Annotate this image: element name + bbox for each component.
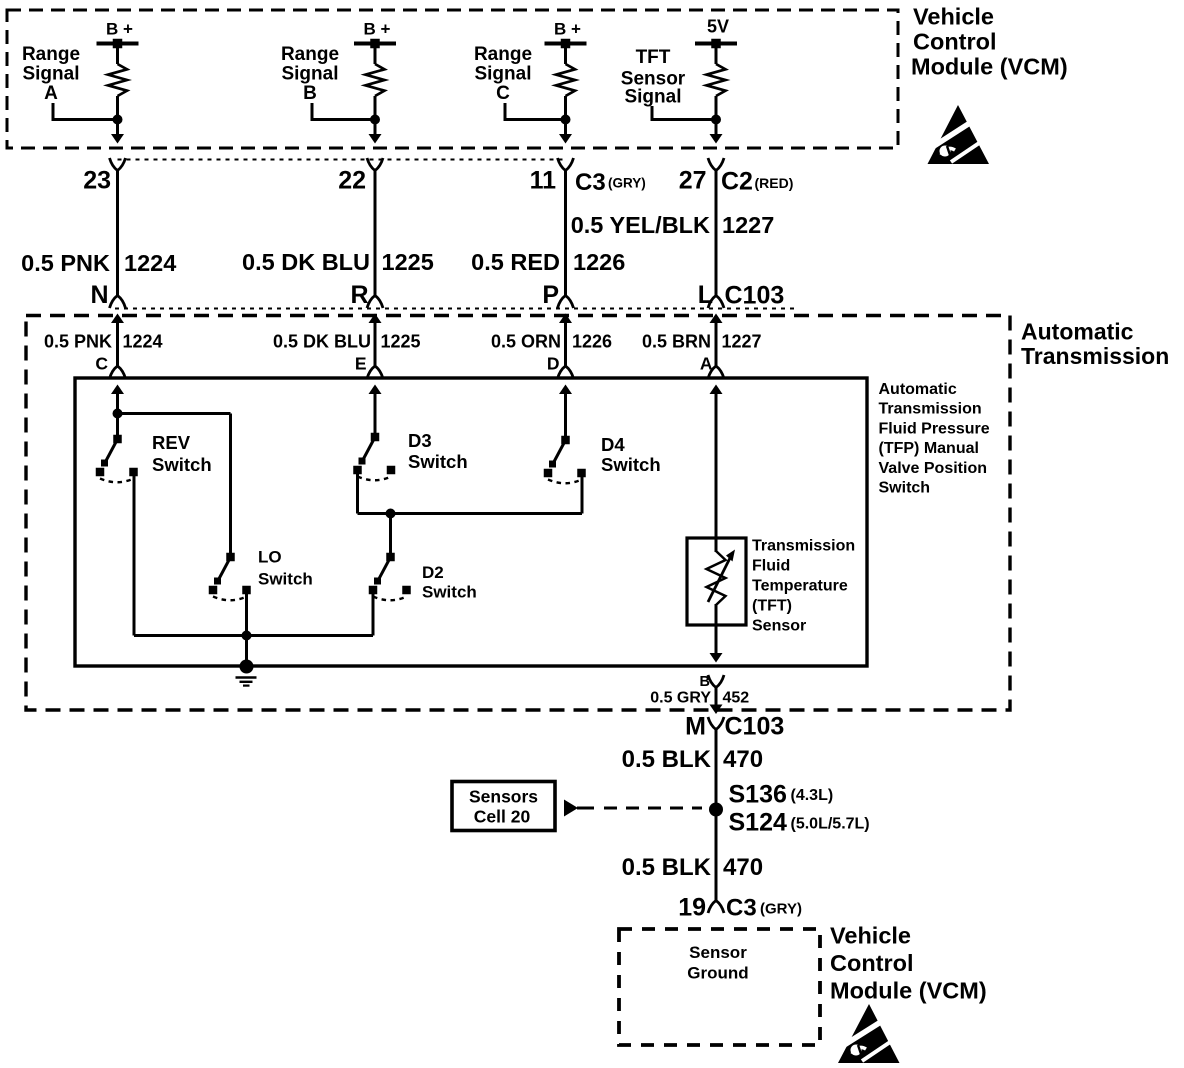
connector C103 pin N letter <box>90 281 108 309</box>
svg-text:Signal: Signal <box>624 87 681 108</box>
svg-text:Module (VCM): Module (VCM) <box>830 978 987 1004</box>
connector C103 boundary line (dotted) <box>115 308 795 310</box>
svg-text:(4.3L): (4.3L) <box>791 787 834 804</box>
svg-text:N: N <box>90 281 108 309</box>
wire to ground <box>245 636 248 662</box>
svg-text:Range: Range <box>281 44 339 65</box>
svg-text:Valve Position: Valve Position <box>879 460 987 477</box>
label TFT Sensor Signal <box>621 47 686 108</box>
ground symbol <box>236 678 257 686</box>
wire junction to LO feed <box>118 414 231 555</box>
label D2 Switch <box>422 563 477 602</box>
power supply B+ (column 2) <box>354 20 396 49</box>
svg-text:TFT: TFT <box>636 47 671 68</box>
wire junction to D2 pivot <box>389 514 392 554</box>
svg-text:L: L <box>698 281 713 309</box>
node junction (column 3) <box>561 115 571 125</box>
wire (column 1 in VCM) <box>116 96 119 135</box>
connector C103 male pin arrow (P) <box>559 314 572 367</box>
svg-text:0.5 PNK: 0.5 PNK <box>44 332 112 352</box>
label REV Switch <box>152 432 212 475</box>
connector C103 pin P letter <box>542 281 559 309</box>
node junction common/ground <box>242 631 252 641</box>
Sensor Ground box (VCM bottom) <box>619 929 820 1045</box>
wire label 0.5 DK BLU 1225 <box>242 249 434 275</box>
svg-text:Switch: Switch <box>879 480 931 497</box>
svg-text:A: A <box>44 83 58 104</box>
svg-text:1225: 1225 <box>381 332 421 352</box>
svg-text:Sensors: Sensors <box>469 787 538 807</box>
svg-text:(TFP) Manual: (TFP) Manual <box>879 440 979 457</box>
TFT sensor box <box>687 538 746 625</box>
connector fork pin 23 (female) <box>110 158 126 171</box>
svg-text:S136: S136 <box>729 781 787 809</box>
pin A entry arrow <box>710 385 723 541</box>
svg-text:0.5 YEL/BLK: 0.5 YEL/BLK <box>571 212 710 238</box>
TFP Manual Valve Position Switch box <box>75 378 867 666</box>
wire elbow from A label <box>53 103 118 120</box>
wire label 0.5 RED 1226 <box>471 249 625 275</box>
wire label 0.5 PNK 1224 (transmission) <box>44 332 163 352</box>
label Transmission Fluid Temperature (TFT) Sensor <box>752 538 855 635</box>
resistor R4 pull-up <box>707 46 726 96</box>
svg-text:C: C <box>95 354 108 374</box>
svg-text:1225: 1225 <box>382 249 434 275</box>
svg-text:Sensor: Sensor <box>752 618 806 635</box>
svg-text:Switch: Switch <box>152 454 212 475</box>
label D4 Switch <box>601 434 661 475</box>
wire dashed to splice <box>604 807 702 810</box>
pin number 11 <box>530 167 557 195</box>
wire D4 NC contact down <box>581 477 584 514</box>
svg-text:C103: C103 <box>725 713 785 741</box>
connector fork pin 27 (female) <box>708 158 724 171</box>
wire label 0.5 ORN 1226 (transmission) <box>491 332 612 352</box>
ESD sensitivity symbol (bottom) <box>838 1004 905 1063</box>
connector C103 fork pin R <box>367 296 383 309</box>
svg-text:C3: C3 <box>575 169 606 196</box>
connector C3/C2 boundary line (dotted) <box>118 159 566 161</box>
pin C entry arrow <box>111 385 124 414</box>
switch D2 <box>369 553 411 601</box>
svg-text:D2: D2 <box>422 563 444 582</box>
svg-text:(GRY): (GRY) <box>760 901 802 918</box>
wire label 0.5 BLK 470 (lower) <box>622 854 763 881</box>
svg-text:Ground: Ground <box>687 964 748 983</box>
svg-text:23: 23 <box>83 167 111 195</box>
TFP switch connector fork pin D <box>558 366 574 379</box>
wire label 0.5 BLK 470 (upper) <box>622 746 763 773</box>
svg-text:B: B <box>303 83 317 104</box>
svg-text:(GRY): (GRY) <box>608 176 646 191</box>
wire elbow from C label <box>505 103 566 120</box>
pin number 22 <box>338 167 366 195</box>
connector label C103 <box>725 282 785 310</box>
connector label C3 (GRY) <box>575 169 646 196</box>
Vehicle Control Module (VCM) box (top) <box>7 10 898 148</box>
wire label 0.5 BRN 1227 (transmission) <box>642 332 762 352</box>
svg-text:0.5 GRY: 0.5 GRY <box>650 690 711 707</box>
svg-text:22: 22 <box>338 167 366 195</box>
connector fork pin 11 (female) <box>558 158 574 171</box>
connector C103 fork pin L <box>708 296 724 309</box>
wire D2 NO contact down <box>372 594 375 636</box>
pin E entry arrow <box>369 385 382 435</box>
svg-text:C3: C3 <box>726 895 757 922</box>
wire REV NC contact down <box>133 476 136 636</box>
connector C103 male pin arrow (N) <box>111 314 124 367</box>
connector C103 fork pin N <box>110 296 126 309</box>
wire circuit 1225 (VCM to C103) <box>374 171 377 296</box>
node junction REV/LO feed <box>113 409 123 419</box>
svg-text:1224: 1224 <box>124 250 176 276</box>
svg-text:27: 27 <box>679 167 707 195</box>
label Automatic Transmission <box>1021 319 1169 370</box>
wire circuit 470 upper <box>715 730 718 901</box>
wire LO NC contact down <box>245 594 248 636</box>
resistor R1 pull-up <box>108 46 127 96</box>
svg-text:452: 452 <box>723 690 750 707</box>
svg-text:D4: D4 <box>601 434 625 455</box>
wire (column 2 in VCM) <box>374 96 377 135</box>
wire pin B to C103 <box>715 688 718 707</box>
label Vehicle Control Module (VCM) top <box>911 4 1068 80</box>
svg-text:Switch: Switch <box>601 454 661 475</box>
svg-text:470: 470 <box>723 746 763 773</box>
svg-text:Cell 20: Cell 20 <box>474 807 531 827</box>
svg-text:B +: B + <box>554 20 581 39</box>
svg-text:Control: Control <box>913 29 997 55</box>
svg-text:Fluid Pressure: Fluid Pressure <box>879 420 990 437</box>
svg-text:1227: 1227 <box>722 212 774 238</box>
connector fork pin 22 (female) <box>367 158 383 171</box>
pin arrow out of VCM (column 1) <box>111 134 124 144</box>
svg-text:1224: 1224 <box>123 332 163 352</box>
connector C103 male pin arrow (R) <box>369 314 382 367</box>
svg-text:Vehicle: Vehicle <box>913 4 994 30</box>
svg-text:Temperature: Temperature <box>752 578 848 595</box>
Automatic Transmission box (dashed) <box>26 316 1010 711</box>
svg-text:Fluid: Fluid <box>752 558 790 575</box>
svg-text:Transmission: Transmission <box>752 538 855 555</box>
svg-text:5V: 5V <box>707 17 729 37</box>
svg-text:0.5 DK BLU: 0.5 DK BLU <box>273 332 371 352</box>
switch D3 <box>353 433 395 481</box>
Sensors Cell 20 box <box>452 782 555 831</box>
node junction (column 4) <box>711 115 721 125</box>
label Range Signal B <box>281 44 339 104</box>
svg-text:Signal: Signal <box>281 64 338 85</box>
svg-text:19: 19 <box>678 894 706 922</box>
svg-text:0.5 RED: 0.5 RED <box>471 249 560 275</box>
node junction (column 1) <box>113 115 123 125</box>
splice node S136/S124 <box>709 803 723 817</box>
svg-text:Signal: Signal <box>474 64 531 85</box>
svg-text:M: M <box>685 713 706 741</box>
label Vehicle Control Module (VCM) bottom <box>830 923 987 1004</box>
label S124 (5.0L/5.7L) <box>729 809 870 837</box>
svg-text:Vehicle: Vehicle <box>830 923 911 949</box>
svg-text:Switch: Switch <box>422 583 477 602</box>
svg-text:470: 470 <box>723 854 763 881</box>
label Range Signal C <box>474 44 532 104</box>
pin B exit arrow <box>710 653 723 663</box>
svg-text:Sensor: Sensor <box>689 943 747 962</box>
power supply 5V (column 4) <box>695 17 737 49</box>
wire label 0.5 DK BLU 1225 (transmission) <box>273 332 421 352</box>
svg-text:B +: B + <box>106 20 133 39</box>
wire (column 3 in VCM) <box>564 96 567 135</box>
svg-text:Automatic: Automatic <box>1021 319 1134 345</box>
wire label 0.5 PNK 1224 <box>21 250 176 276</box>
resistor R3 pull-up <box>556 46 575 96</box>
pin number 23 <box>83 167 111 195</box>
wire common bus <box>134 634 373 637</box>
arrow out of transmission <box>710 705 723 715</box>
connector C103 male pin arrow (L) <box>710 314 723 367</box>
label LO Switch <box>258 548 313 589</box>
power supply B+ (column 1) <box>97 20 139 49</box>
svg-text:E: E <box>355 354 367 374</box>
connector C103 fork pin P <box>558 296 574 309</box>
svg-text:P: P <box>542 281 559 309</box>
connector label C3 (GRY) bottom <box>726 895 802 922</box>
pin number 19 <box>678 894 706 922</box>
TFP switch pin E letter <box>355 354 367 374</box>
svg-text:Signal: Signal <box>22 64 79 85</box>
ground node <box>240 660 254 674</box>
switch D4 <box>544 436 586 484</box>
connector C103 pin R letter <box>350 281 368 309</box>
pin number 27 <box>679 167 707 195</box>
svg-text:S124: S124 <box>729 809 787 837</box>
svg-text:1226: 1226 <box>572 332 612 352</box>
svg-text:Switch: Switch <box>408 451 468 472</box>
svg-text:Range: Range <box>22 44 80 65</box>
svg-text:1227: 1227 <box>722 332 762 352</box>
svg-text:Module (VCM): Module (VCM) <box>911 54 1068 80</box>
connector C103 fork pin M <box>708 717 724 730</box>
svg-text:0.5 PNK: 0.5 PNK <box>21 250 110 276</box>
label M C103 <box>685 713 784 741</box>
svg-text:(TFT): (TFT) <box>752 598 792 615</box>
svg-text:C103: C103 <box>725 282 785 310</box>
wire label 0.5 GRY 452 <box>650 690 749 707</box>
wire circuit 1224 (VCM to C103) <box>116 171 119 296</box>
svg-text:(5.0L/5.7L): (5.0L/5.7L) <box>791 816 870 833</box>
TFP switch pin C letter <box>95 354 108 374</box>
svg-text:Switch: Switch <box>258 570 313 589</box>
thermistor TFT sensor <box>707 538 736 640</box>
wire TFT sensor to pin B <box>715 625 718 654</box>
wire elbow from Signal label <box>652 106 716 120</box>
svg-text:Transmission: Transmission <box>879 401 982 418</box>
TFP switch connector fork pin A <box>708 366 724 379</box>
svg-text:D: D <box>547 354 560 374</box>
wire circuit 1227 (VCM to C103) <box>715 171 718 296</box>
arrow from Sensors Cell 20 <box>564 800 594 817</box>
connector C3 fork pin 19 <box>708 901 724 914</box>
svg-text:R: R <box>350 281 368 309</box>
switch LO <box>209 553 251 601</box>
pin arrow out of VCM (column 4) <box>710 134 723 144</box>
pin D entry arrow <box>559 385 572 438</box>
svg-text:(RED): (RED) <box>755 175 794 191</box>
pin arrow out of VCM (column 2) <box>369 134 382 144</box>
ESD sensitivity symbol (top) <box>928 105 995 164</box>
resistor R2 pull-up <box>366 46 385 96</box>
svg-text:Range: Range <box>474 44 532 65</box>
node junction D3/D4/D2 <box>386 509 396 519</box>
label Range Signal A <box>22 44 80 104</box>
svg-text:0.5 BRN: 0.5 BRN <box>642 332 711 352</box>
wire circuit 1226 (VCM to C103) <box>564 171 567 296</box>
wire junction to REV pivot <box>116 414 119 437</box>
svg-text:0.5 DK BLU: 0.5 DK BLU <box>242 249 370 275</box>
svg-text:B +: B + <box>364 20 391 39</box>
svg-text:C: C <box>496 83 510 104</box>
wire (column 4 in VCM) <box>715 96 718 135</box>
svg-text:0.5 ORN: 0.5 ORN <box>491 332 561 352</box>
label S136 (4.3L) <box>729 781 834 809</box>
connector C103 pin L letter <box>698 281 713 309</box>
TFP switch connector fork pin C <box>110 366 126 379</box>
svg-text:11: 11 <box>530 167 557 195</box>
svg-text:1226: 1226 <box>573 249 625 275</box>
label Automatic Transmission Fluid Pressure (TFP) Manual Valve Position Switch <box>879 381 990 497</box>
pin B letter <box>700 674 710 690</box>
connector fork pin B <box>708 675 724 688</box>
svg-text:0.5 BLK: 0.5 BLK <box>622 746 712 773</box>
wire label 0.5 YEL/BLK 1227 <box>571 212 775 238</box>
svg-text:D3: D3 <box>408 430 432 451</box>
node junction (column 2) <box>370 115 380 125</box>
svg-text:C2: C2 <box>721 168 753 196</box>
svg-text:0.5 BLK: 0.5 BLK <box>622 854 712 881</box>
TFP switch pin A letter <box>700 354 713 374</box>
svg-text:Transmission: Transmission <box>1021 343 1169 369</box>
svg-text:Control: Control <box>830 950 914 976</box>
TFP switch connector fork pin E <box>367 366 383 379</box>
label D3 Switch <box>408 430 468 472</box>
svg-text:LO: LO <box>258 548 282 567</box>
svg-text:REV: REV <box>152 432 191 453</box>
switch REV <box>96 435 138 483</box>
wire elbow from B label <box>312 103 375 120</box>
pin arrow out of VCM (column 3) <box>559 134 572 144</box>
wire D3 NO contact down <box>358 474 583 514</box>
connector label C2 (RED) <box>721 168 793 196</box>
svg-text:Automatic: Automatic <box>879 381 957 398</box>
TFP switch pin D letter <box>547 354 560 374</box>
power supply B+ (column 3) <box>545 20 587 49</box>
